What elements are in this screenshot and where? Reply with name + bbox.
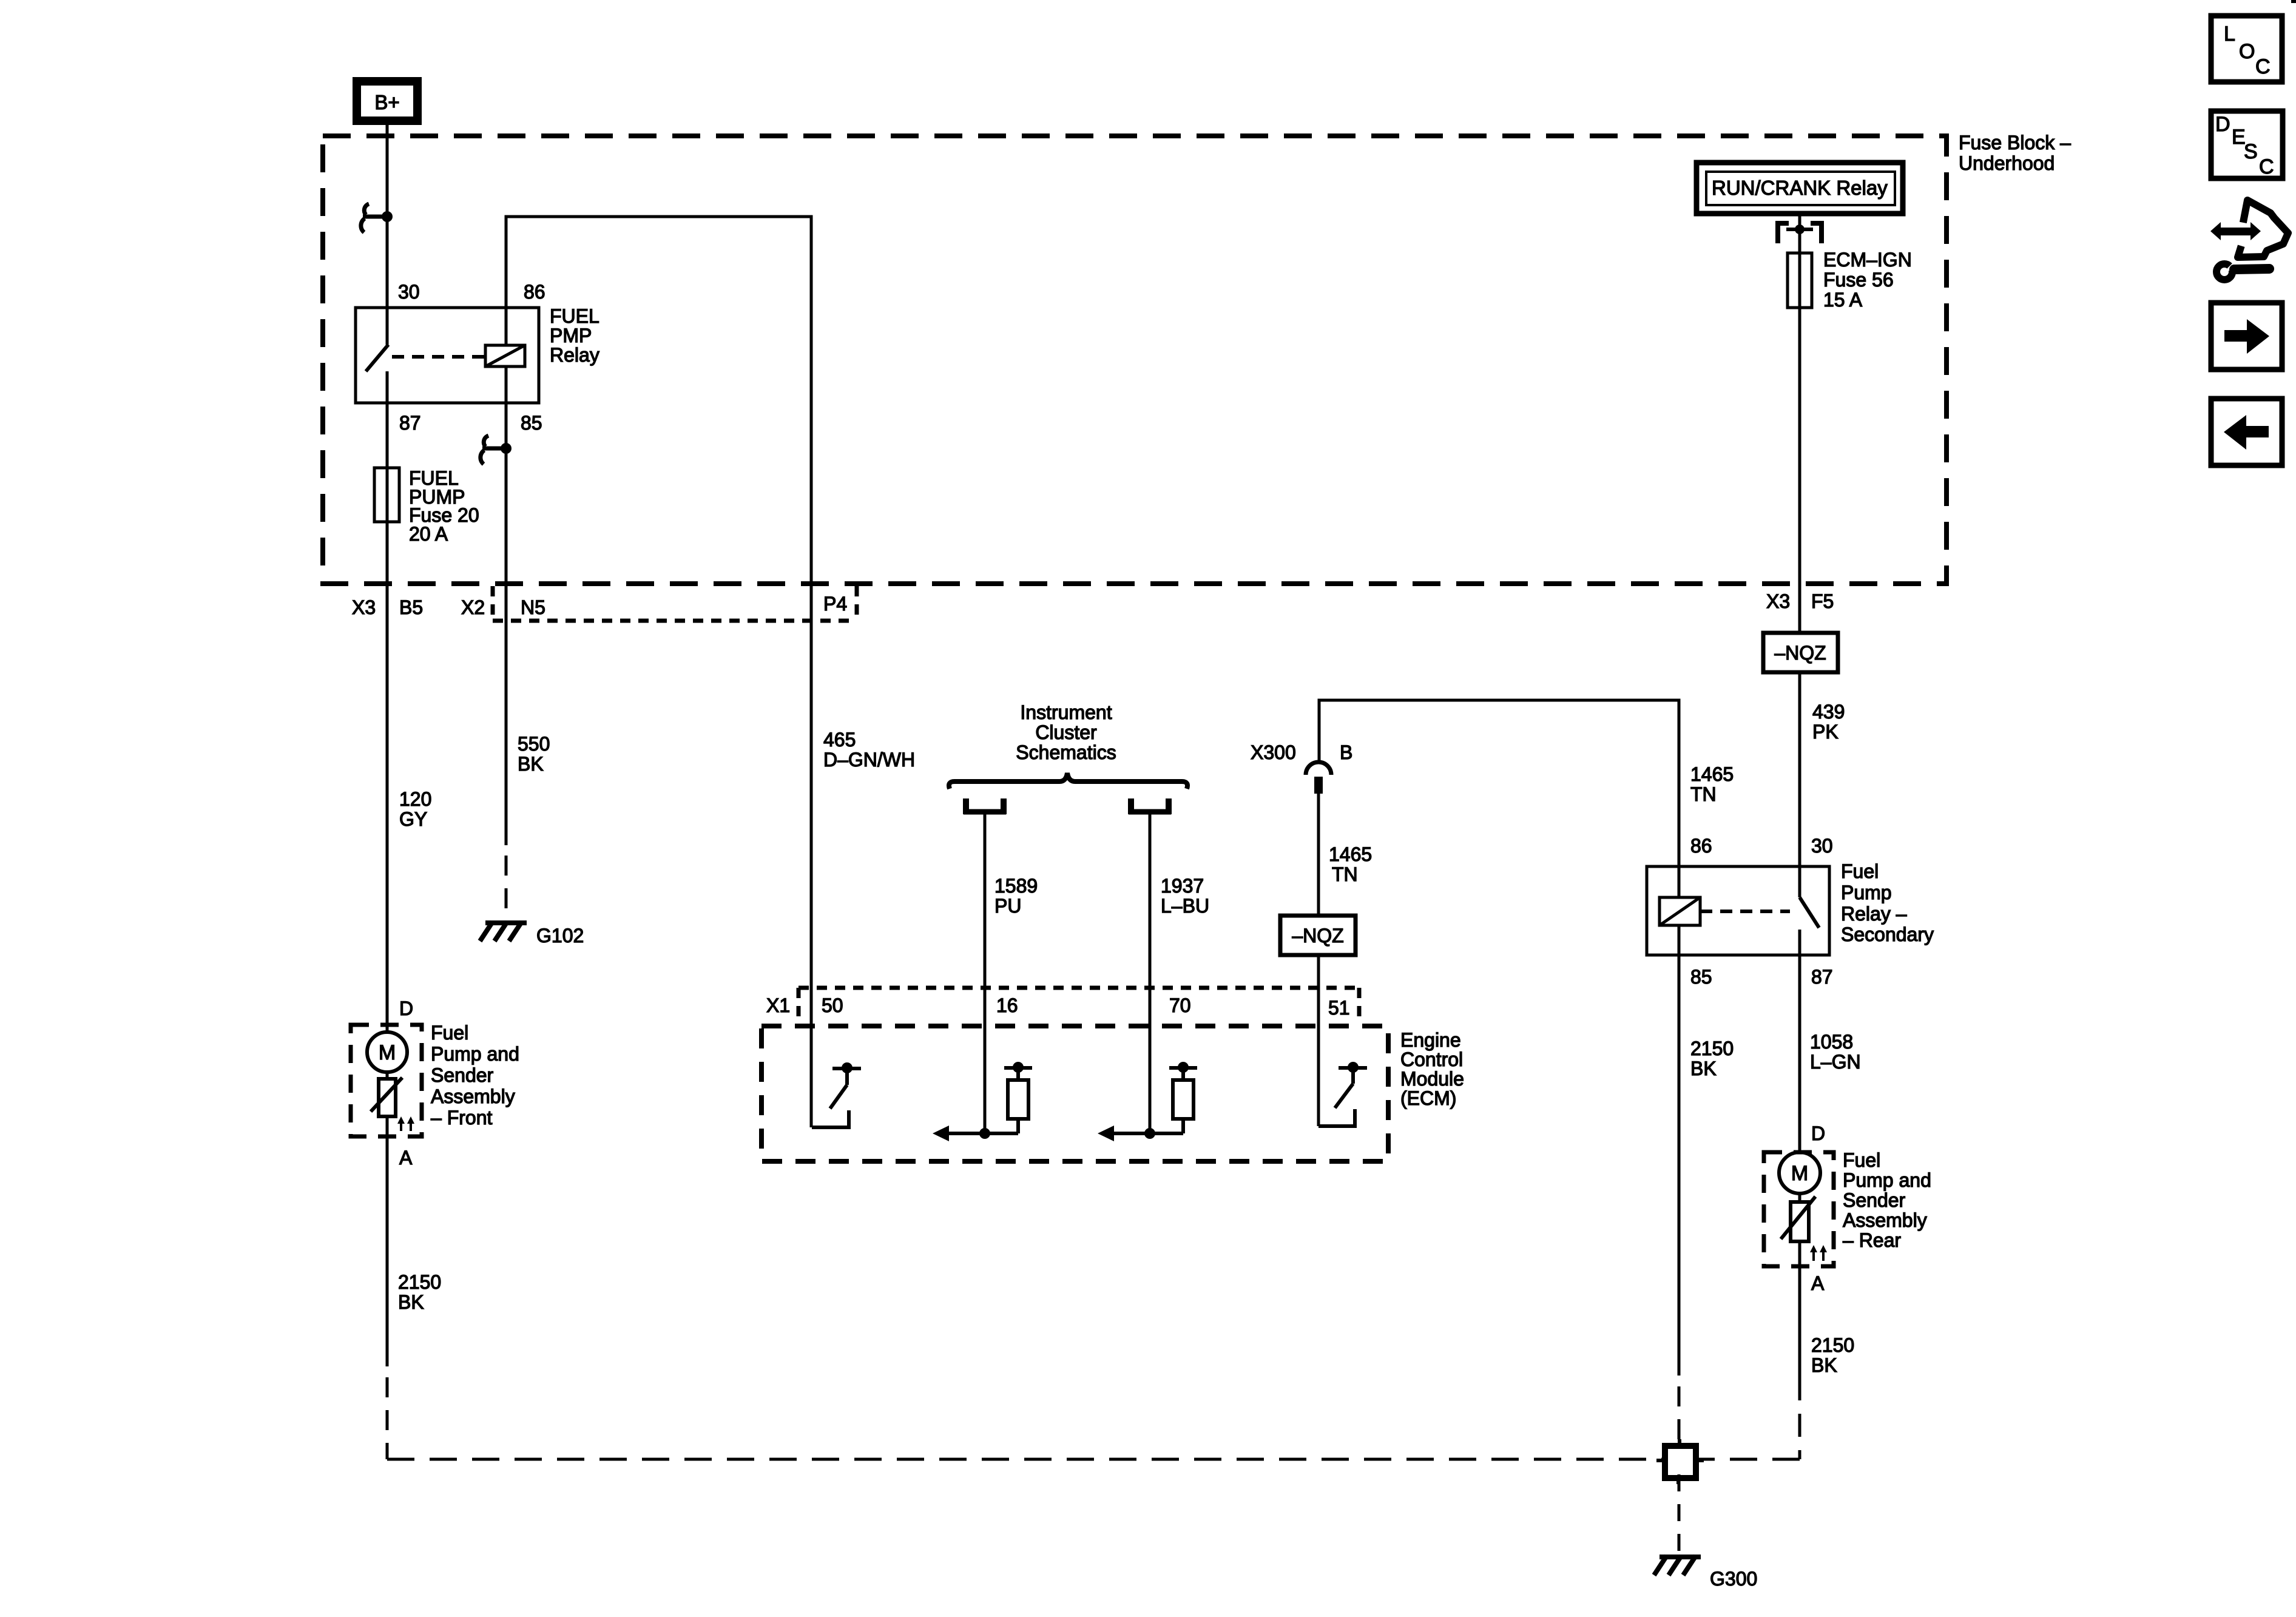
svg-text:F5: F5 bbox=[1811, 590, 1834, 612]
svg-text:30: 30 bbox=[1811, 835, 1833, 857]
svg-text:(ECM): (ECM) bbox=[1400, 1087, 1456, 1109]
svg-text:2150: 2150 bbox=[1811, 1334, 1854, 1356]
svg-text:FUEL: FUEL bbox=[550, 305, 599, 327]
svg-text:Sender: Sender bbox=[1843, 1189, 1906, 1211]
svg-text:Engine: Engine bbox=[1400, 1029, 1461, 1051]
svg-text:BK: BK bbox=[518, 753, 544, 775]
svg-text:–NQZ: –NQZ bbox=[1292, 925, 1343, 947]
svg-text:G300: G300 bbox=[1710, 1568, 1757, 1590]
svg-text:Schematics: Schematics bbox=[1016, 741, 1116, 763]
svg-text:D: D bbox=[399, 998, 413, 1019]
svg-text:Relay –: Relay – bbox=[1841, 903, 1907, 925]
svg-text:2150: 2150 bbox=[1690, 1038, 1734, 1059]
svg-text:C: C bbox=[2259, 155, 2274, 178]
svg-text:ECM–IGN: ECM–IGN bbox=[1823, 249, 1912, 271]
svg-text:Cluster: Cluster bbox=[1035, 721, 1097, 743]
svg-text:BK: BK bbox=[1811, 1354, 1837, 1376]
svg-text:X3: X3 bbox=[1766, 590, 1790, 612]
svg-text:86: 86 bbox=[524, 281, 545, 303]
svg-text:X1: X1 bbox=[766, 994, 790, 1016]
svg-text:1465: 1465 bbox=[1690, 763, 1734, 785]
svg-text:PMP: PMP bbox=[550, 325, 592, 346]
svg-text:Fuse Block –: Fuse Block – bbox=[1959, 132, 2071, 154]
svg-text:50: 50 bbox=[822, 994, 843, 1016]
svg-text:B5: B5 bbox=[399, 596, 423, 618]
svg-text:120: 120 bbox=[399, 788, 431, 810]
svg-text:TN: TN bbox=[1690, 783, 1717, 805]
svg-text:85: 85 bbox=[1690, 966, 1712, 988]
svg-text:PK: PK bbox=[1812, 721, 1838, 743]
svg-text:51: 51 bbox=[1328, 997, 1350, 1019]
svg-text:B+: B+ bbox=[374, 91, 399, 113]
svg-text:Pump and: Pump and bbox=[431, 1043, 519, 1065]
svg-text:M: M bbox=[379, 1041, 396, 1064]
svg-text:BK: BK bbox=[1690, 1058, 1717, 1079]
svg-text:Sender: Sender bbox=[431, 1064, 494, 1086]
svg-text:1589: 1589 bbox=[994, 875, 1038, 897]
svg-text:1058: 1058 bbox=[1810, 1031, 1853, 1053]
svg-text:1465: 1465 bbox=[1329, 843, 1372, 865]
svg-text:C: C bbox=[2255, 55, 2271, 78]
svg-text:87: 87 bbox=[399, 412, 421, 434]
svg-text:Fuel: Fuel bbox=[1843, 1149, 1880, 1171]
svg-text:1937: 1937 bbox=[1161, 875, 1204, 897]
svg-text:–NQZ: –NQZ bbox=[1774, 642, 1826, 664]
svg-text:550: 550 bbox=[518, 733, 550, 755]
svg-text:Secondary: Secondary bbox=[1841, 923, 1934, 945]
svg-text:Underhood: Underhood bbox=[1959, 152, 2055, 174]
svg-text:B: B bbox=[1340, 741, 1352, 763]
svg-text:Instrument: Instrument bbox=[1020, 701, 1112, 723]
svg-text:Fuel: Fuel bbox=[1841, 860, 1879, 882]
svg-text:L–BU: L–BU bbox=[1161, 895, 1209, 917]
svg-text:Assembly: Assembly bbox=[431, 1085, 515, 1107]
svg-text:– Rear: – Rear bbox=[1843, 1229, 1901, 1251]
svg-text:87: 87 bbox=[1811, 966, 1833, 988]
svg-text:BK: BK bbox=[398, 1291, 424, 1313]
svg-text:L: L bbox=[2224, 22, 2235, 46]
svg-text:20 A: 20 A bbox=[409, 523, 448, 545]
svg-text:86: 86 bbox=[1690, 835, 1712, 857]
svg-text:16: 16 bbox=[996, 994, 1018, 1016]
svg-text:L–GN: L–GN bbox=[1810, 1051, 1861, 1073]
svg-text:X300: X300 bbox=[1251, 741, 1296, 763]
svg-text:85: 85 bbox=[521, 412, 542, 434]
svg-text:P4: P4 bbox=[823, 593, 847, 615]
svg-text:Module: Module bbox=[1400, 1068, 1464, 1090]
svg-text:X3: X3 bbox=[352, 596, 376, 618]
svg-text:Pump: Pump bbox=[1841, 882, 1892, 903]
svg-text:G102: G102 bbox=[536, 925, 584, 947]
svg-text:70: 70 bbox=[1169, 994, 1191, 1016]
svg-text:D: D bbox=[1811, 1122, 1825, 1144]
svg-text:D: D bbox=[2215, 113, 2230, 136]
svg-text:TN: TN bbox=[1332, 863, 1358, 885]
svg-text:D–GN/WH: D–GN/WH bbox=[823, 749, 915, 771]
svg-text:A: A bbox=[1811, 1272, 1825, 1294]
svg-text:15 A: 15 A bbox=[1823, 289, 1863, 311]
svg-text:X2: X2 bbox=[461, 596, 485, 618]
svg-text:Assembly: Assembly bbox=[1843, 1209, 1927, 1231]
svg-text:N5: N5 bbox=[521, 596, 545, 618]
svg-text:S: S bbox=[2244, 140, 2258, 163]
svg-text:M: M bbox=[1791, 1162, 1808, 1185]
svg-text:Fuel: Fuel bbox=[431, 1022, 468, 1044]
svg-text:465: 465 bbox=[823, 729, 856, 751]
svg-text:Pump and: Pump and bbox=[1843, 1169, 1931, 1191]
svg-text:– Front: – Front bbox=[431, 1107, 492, 1129]
svg-text:RUN/CRANK Relay: RUN/CRANK Relay bbox=[1712, 177, 1888, 199]
svg-text:Relay: Relay bbox=[550, 344, 599, 366]
svg-text:GY: GY bbox=[399, 808, 427, 830]
svg-text:A: A bbox=[399, 1147, 413, 1169]
svg-text:PU: PU bbox=[994, 895, 1021, 917]
svg-text:O: O bbox=[2239, 40, 2255, 63]
svg-text:Control: Control bbox=[1400, 1048, 1463, 1070]
svg-text:30: 30 bbox=[398, 281, 420, 303]
svg-text:439: 439 bbox=[1812, 701, 1845, 723]
svg-text:2150: 2150 bbox=[398, 1271, 441, 1293]
svg-text:Fuse 56: Fuse 56 bbox=[1823, 269, 1894, 291]
